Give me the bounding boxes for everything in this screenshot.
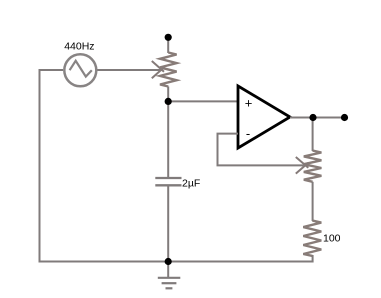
- svg-text:100: 100: [323, 233, 341, 245]
- wire output junction down to R2: [312, 118, 314, 152]
- node junction A: [165, 98, 172, 105]
- svg-text:440Hz: 440Hz: [64, 41, 94, 53]
- wire from source left around bottom-left loop: [40, 70, 169, 262]
- wire node A to op-amp plus input: [168, 100, 238, 102]
- wire R2 to R3: [312, 182, 314, 221]
- ground: [158, 262, 181, 289]
- wire top terminal stub: [167, 39, 169, 53]
- resistor R3 100: [303, 221, 321, 256]
- op-amp U1: [238, 86, 290, 148]
- node output junction: [309, 114, 316, 121]
- potentiometer R1: [152, 53, 177, 87]
- potentiometer R2: [296, 151, 322, 182]
- wire R1 bottom stub: [167, 87, 169, 102]
- node ground junction: [165, 258, 172, 265]
- capacitor C1 2uF: [155, 178, 181, 185]
- svg-text:-: -: [246, 126, 250, 141]
- wire feedback from op-amp minus input to R2 wiper: [218, 134, 304, 166]
- node top terminal dot: [165, 34, 172, 41]
- wire bottom right segment: [168, 255, 313, 262]
- node output terminal dot: [341, 114, 348, 121]
- wire from source to potentiometer wiper: [97, 69, 161, 71]
- wire node A down to capacitor: [167, 101, 169, 177]
- wire output junction to terminal: [313, 117, 345, 119]
- wire op-amp output: [290, 117, 313, 119]
- svg-text:+: +: [245, 96, 253, 111]
- wire capacitor to ground node: [167, 186, 169, 261]
- source V1 440Hz: [64, 54, 96, 86]
- svg-text:2µF: 2µF: [182, 178, 200, 190]
